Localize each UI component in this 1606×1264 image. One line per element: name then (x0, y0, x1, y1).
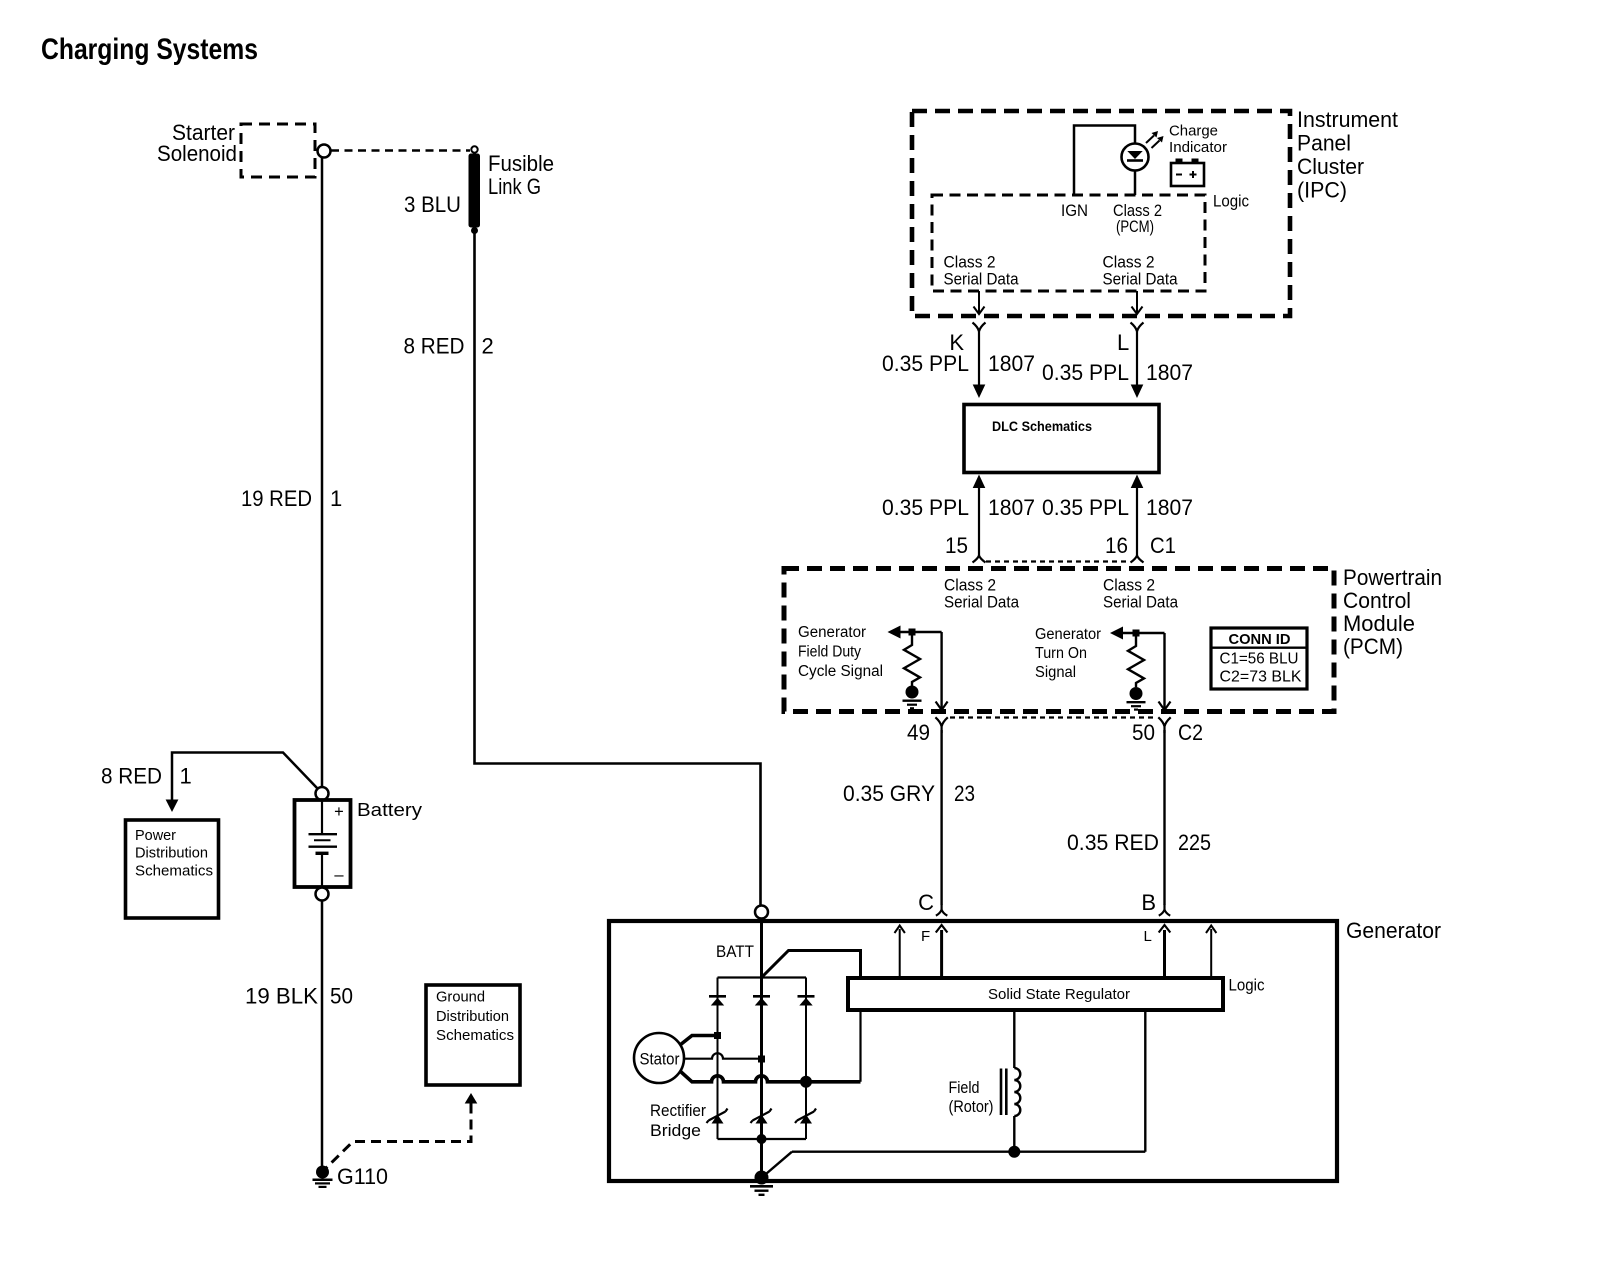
wire (IPC internal right, to pin L) (1132, 291, 1143, 314)
arrow (generator F internal thin) (895, 926, 905, 979)
junction (field duty pullup) (909, 629, 916, 636)
generator ground symbol (750, 1186, 773, 1195)
node dot (field duty resistor to ground) (906, 686, 919, 699)
value label 0.35 RED 225 (1067, 830, 1211, 855)
stator phase wire 3 (bottom) (680, 1071, 861, 1082)
wire bottom rail to generator ground (760, 1139, 763, 1177)
wire 0.35 PPL 1807 (DLC to PCM pin 15) (973, 475, 986, 563)
battery logic icon body (1171, 163, 1204, 186)
CONN ID separator (1211, 647, 1307, 649)
connector C2 dashed line (950, 716, 1157, 718)
ground G110 symbol (313, 1180, 333, 1187)
connector pin C (generator) (936, 905, 947, 916)
svg-text:19 BLK: 19 BLK (245, 984, 318, 1009)
wire phase 3 sense to regulator (859, 1010, 861, 1082)
wire (PCM internal to pin 49) (936, 632, 948, 710)
wire (IPC internal left, to pin K) (974, 291, 985, 314)
svg-text:0.35 PPL: 0.35 PPL (882, 495, 969, 520)
ground distribution schematics box (426, 985, 520, 1085)
fusible link G top terminal (471, 146, 477, 152)
svg-text:8 RED: 8 RED (101, 764, 162, 789)
svg-text:0.35 RED: 0.35 RED (1067, 830, 1159, 855)
arrow to field duty label (888, 626, 901, 639)
svg-text:Ground: Ground (436, 990, 485, 1006)
svg-text:Module: Module (1343, 611, 1415, 636)
wire regulator to return rail (1144, 1010, 1146, 1152)
svg-text:1807: 1807 (1146, 360, 1193, 385)
fusible link G body (469, 154, 481, 228)
battery + terminal circle (316, 787, 329, 800)
svg-text:0.35 PPL: 0.35 PPL (1042, 495, 1129, 520)
generator box (609, 921, 1337, 1181)
charge indicator light rays (1146, 131, 1164, 148)
svg-text:19 RED: 19 RED (241, 486, 312, 511)
svg-text:8 RED: 8 RED (404, 334, 465, 359)
svg-text:Distribution: Distribution (436, 1009, 509, 1025)
node (fusible link bottom junction) (471, 227, 478, 234)
power distribution schematics label (135, 828, 213, 880)
svg-text:Panel: Panel (1297, 131, 1351, 156)
wire field return rail (792, 1150, 1145, 1152)
IPC logic box (932, 195, 1205, 291)
svg-text:C2: C2 (1178, 720, 1203, 745)
field coil (rotor winding) (1014, 1010, 1020, 1152)
svg-text:Charging Systems: Charging Systems (41, 33, 258, 66)
instrument panel cluster label (1297, 107, 1398, 203)
diode D6 (bottom avalanche, col 3) (795, 1109, 816, 1124)
diode D5 (bottom avalanche, col 2) (751, 1109, 772, 1124)
wire F with arrow (regulator to terminal) (936, 925, 948, 978)
net label Class 2 Serial Data (IPC left) (944, 254, 1020, 289)
rectifier column 3 (805, 978, 807, 1140)
wire L with arrow (regulator to terminal) (1159, 925, 1171, 978)
svg-text:+: + (334, 803, 344, 821)
wire 8 RED (fusible link to generator BATT) (475, 234, 761, 907)
net label Class 2 Serial Data (IPC right) (1103, 254, 1179, 289)
wire (dashed, G110 to ground distribution) (326, 1104, 472, 1169)
svg-text:3 BLU: 3 BLU (404, 192, 461, 217)
svg-text:Solid State Regulator: Solid State Regulator (988, 986, 1130, 1003)
svg-text:Cycle Signal: Cycle Signal (798, 663, 883, 680)
field rotor label (949, 1079, 994, 1116)
diode D3 (top, col 3) (798, 996, 815, 1005)
svg-text:DLC Schematics: DLC Schematics (992, 418, 1092, 434)
charge indicator label (1169, 124, 1227, 157)
signal label Generator Turn On Signal (1035, 626, 1101, 681)
stator phase wire 1 (top) (680, 1036, 718, 1046)
diode D4 (bottom avalanche, col 1) (707, 1109, 728, 1124)
connector pin 50 (1158, 717, 1170, 733)
svg-text:1807: 1807 (1146, 495, 1193, 520)
DLC schematics box (964, 405, 1159, 473)
fusible link G label (488, 151, 554, 199)
svg-text:Generator: Generator (1346, 918, 1441, 943)
svg-text:Instrument: Instrument (1297, 107, 1398, 132)
svg-text:Battery: Battery (357, 799, 423, 820)
svg-text:15: 15 (945, 533, 968, 558)
value label 19 RED 1 (241, 486, 342, 511)
wire BATT feed to regulator (diagonal) (762, 951, 861, 978)
generator BATT terminal circle (755, 906, 768, 919)
svg-text:C2=73 BLK: C2=73 BLK (1220, 669, 1302, 686)
svg-text:Charge: Charge (1169, 124, 1218, 140)
svg-text:225: 225 (1178, 830, 1211, 855)
junction (phase 2 to col 2) (758, 1056, 765, 1063)
svg-text:16: 16 (1105, 533, 1128, 558)
connector C1 dashed line (986, 560, 1130, 562)
svg-text:0.35 PPL: 0.35 PPL (882, 351, 969, 376)
wire (dashed, solenoid to fusible link) (331, 149, 470, 151)
ground distribution schematics label (436, 990, 514, 1045)
charge indicator diode triangle (1127, 151, 1142, 159)
battery plate long 2 (309, 846, 338, 848)
svg-text:Class 2: Class 2 (1103, 254, 1155, 272)
svg-text:Stator: Stator (640, 1051, 680, 1069)
wire BATT terminal to rectifier rail (760, 919, 763, 979)
svg-text:1: 1 (180, 764, 192, 789)
arrow (generator logic internal thin) (1206, 926, 1216, 979)
value label 0.35 PPL 1807 (right) (1042, 360, 1193, 385)
battery logic icon + mark (1190, 171, 1197, 178)
rectifier column 1 (717, 978, 719, 1140)
wire return rail to ground (diagonal) (763, 1152, 792, 1177)
rectifier bridge label (650, 1102, 706, 1140)
connector pin B (generator) (1159, 905, 1170, 916)
rectifier column 2 (760, 978, 763, 1140)
svg-text:Class 2: Class 2 (944, 254, 996, 272)
battery internal lead top (321, 800, 323, 833)
svg-text:F: F (921, 928, 930, 945)
field coil core bars (1001, 1069, 1006, 1116)
connector pin L (1131, 323, 1144, 340)
svg-text:0.35 PPL: 0.35 PPL (1042, 360, 1129, 385)
arrow to turn on label (1110, 627, 1123, 640)
wire (PCM internal to pin 50) (1159, 633, 1171, 710)
battery - terminal circle (316, 888, 329, 901)
svg-text:B: B (1141, 890, 1156, 915)
battery plate long 1 (309, 833, 338, 835)
connector pin K (973, 323, 986, 340)
svg-text:Indicator: Indicator (1169, 140, 1227, 156)
svg-text:Serial Data: Serial Data (944, 594, 1020, 612)
svg-text:Serial Data: Serial Data (1103, 271, 1179, 289)
resistor (field duty) (904, 636, 920, 687)
stator phase wire 2 (middle) (684, 1053, 762, 1059)
value label 0.35 PPL 1807 (lower left) (882, 495, 1035, 520)
ground (field duty) (903, 701, 922, 709)
svg-text:Serial Data: Serial Data (1103, 594, 1179, 612)
svg-text:(Rotor): (Rotor) (949, 1098, 994, 1116)
svg-text:BATT: BATT (716, 943, 754, 961)
net label Class 2 Serial Data (PCM right) (1103, 577, 1179, 612)
arrow into power distribution (166, 800, 179, 813)
value label 19 BLK 50 (245, 984, 353, 1009)
arrow to ground distribution (465, 1093, 478, 1104)
battery logic icon terminals (1176, 159, 1199, 164)
net label Class 2 Serial Data (PCM left) (944, 577, 1020, 612)
junction (coil to return rail) (1008, 1146, 1020, 1158)
svg-text:IGN: IGN (1061, 202, 1088, 220)
svg-text:CONN ID: CONN ID (1229, 631, 1291, 648)
svg-text:C1=56 BLU: C1=56 BLU (1220, 651, 1299, 668)
svg-text:(PCM): (PCM) (1116, 218, 1154, 236)
svg-text:Rectifier: Rectifier (650, 1102, 706, 1120)
diode D1 (top, col 1) (709, 996, 726, 1005)
svg-text:L: L (1117, 330, 1129, 355)
wire 19 RED (solenoid to battery +) (321, 158, 324, 788)
svg-text:Field Duty: Field Duty (798, 644, 861, 661)
starter solenoid terminal circle (318, 145, 331, 158)
svg-text:Generator: Generator (1035, 626, 1101, 643)
wire 0.35 PPL 1807 (K to DLC) (973, 340, 986, 399)
battery plate short 1 (314, 839, 331, 841)
svg-text:Fusible: Fusible (488, 151, 554, 176)
rectifier bottom rail (718, 1138, 807, 1140)
wire IGN to charge indicator (1074, 126, 1135, 196)
wire 0.35 PPL 1807 (L to DLC) (1131, 340, 1144, 399)
svg-text:1807: 1807 (988, 495, 1035, 520)
diode D2 (top, col 2) (753, 996, 770, 1005)
svg-text:Powertrain: Powertrain (1343, 565, 1442, 590)
value label 8 RED 1 (101, 764, 192, 789)
svg-text:Class 2: Class 2 (944, 577, 996, 595)
resistor (turn on) (1128, 637, 1144, 688)
svg-text:Signal: Signal (1035, 664, 1076, 681)
svg-text:Control: Control (1343, 588, 1411, 613)
svg-text:Bridge: Bridge (650, 1122, 701, 1140)
junction (turn on pullup) (1133, 630, 1140, 637)
svg-text:–: – (334, 866, 344, 884)
wire (PCM internal, field duty) (900, 631, 942, 633)
starter solenoid box (241, 124, 315, 177)
svg-text:(IPC): (IPC) (1297, 178, 1347, 203)
svg-text:Serial Data: Serial Data (944, 271, 1020, 289)
wire 19 BLK (battery - to G110) (321, 901, 324, 1167)
svg-text:1: 1 (330, 486, 342, 511)
svg-text:Schematics: Schematics (135, 864, 213, 880)
svg-text:23: 23 (954, 781, 975, 806)
svg-text:G110: G110 (337, 1164, 388, 1189)
svg-text:49: 49 (907, 720, 930, 745)
svg-text:2: 2 (482, 334, 494, 359)
battery B1 box (295, 800, 351, 887)
svg-text:50: 50 (1132, 720, 1155, 745)
svg-text:Solenoid: Solenoid (157, 141, 237, 166)
generator ground node (755, 1171, 769, 1185)
junction (bottom rail to ground) (757, 1134, 767, 1144)
power distribution schematics box (126, 820, 219, 918)
svg-text:L: L (1144, 928, 1152, 945)
svg-text:Schematics: Schematics (436, 1028, 514, 1044)
svg-text:Logic: Logic (1213, 193, 1249, 211)
svg-text:Generator: Generator (798, 624, 866, 641)
charge indicator lamp circle (1122, 144, 1149, 171)
ground G110 node (316, 1166, 329, 1179)
CONN ID box (1211, 628, 1307, 689)
wire 0.35 PPL 1807 (DLC to PCM pin 16) (1131, 475, 1144, 563)
wire branch 8 RED 1 (to power distribution) (172, 753, 318, 801)
solid state regulator box (848, 978, 1223, 1010)
svg-text:Power: Power (135, 828, 176, 844)
rectifier top rail (718, 976, 807, 978)
value label 0.35 GRY 23 (843, 781, 975, 806)
wire (PCM internal, turn on) (1123, 632, 1165, 634)
svg-text:C1: C1 (1150, 533, 1176, 558)
svg-text:Link G: Link G (488, 174, 541, 199)
charge indicator diode bar (1127, 159, 1143, 162)
svg-text:Logic: Logic (1229, 977, 1265, 995)
battery plate short 2 (thick) (316, 852, 329, 855)
svg-text:(PCM): (PCM) (1343, 634, 1403, 659)
svg-text:C: C (918, 890, 934, 915)
svg-text:Turn On: Turn On (1035, 645, 1087, 662)
wire 0.35 GRY 23 (pin 49 to generator C) (940, 730, 942, 905)
signal label Generator Field Duty Cycle Signal (798, 624, 883, 680)
powertrain control module label (1343, 565, 1442, 659)
junction (phase 3 to col 3) (800, 1076, 812, 1088)
wire 0.35 RED 225 (pin 50 to generator B) (1163, 730, 1165, 905)
svg-text:Distribution: Distribution (135, 846, 208, 862)
svg-text:50: 50 (330, 984, 353, 1009)
starter solenoid label (157, 120, 237, 166)
charge indicator lower lead (1134, 171, 1137, 196)
connector pin 49 (935, 717, 947, 733)
svg-text:Field: Field (949, 1079, 980, 1097)
instrument panel cluster box (912, 111, 1290, 316)
junction (phase 1 to col 1) (714, 1032, 721, 1039)
battery logic icon - mark (1176, 174, 1182, 176)
value label 0.35 PPL 1807 (lower right) (1042, 495, 1193, 520)
battery internal lead bottom (321, 854, 323, 887)
svg-text:Cluster: Cluster (1297, 154, 1364, 179)
pin label Class 2 (PCM) (1113, 202, 1162, 236)
stator circle (634, 1033, 684, 1083)
svg-text:Class 2: Class 2 (1103, 577, 1155, 595)
node dot (turn on resistor to ground) (1130, 687, 1143, 700)
value label 8 RED 2 (404, 334, 494, 359)
ground (turn on) (1127, 702, 1146, 709)
powertrain control module box (784, 569, 1334, 712)
svg-text:1807: 1807 (988, 351, 1035, 376)
svg-text:0.35 GRY: 0.35 GRY (843, 781, 935, 806)
value label 0.35 PPL 1807 (left) (882, 351, 1035, 376)
